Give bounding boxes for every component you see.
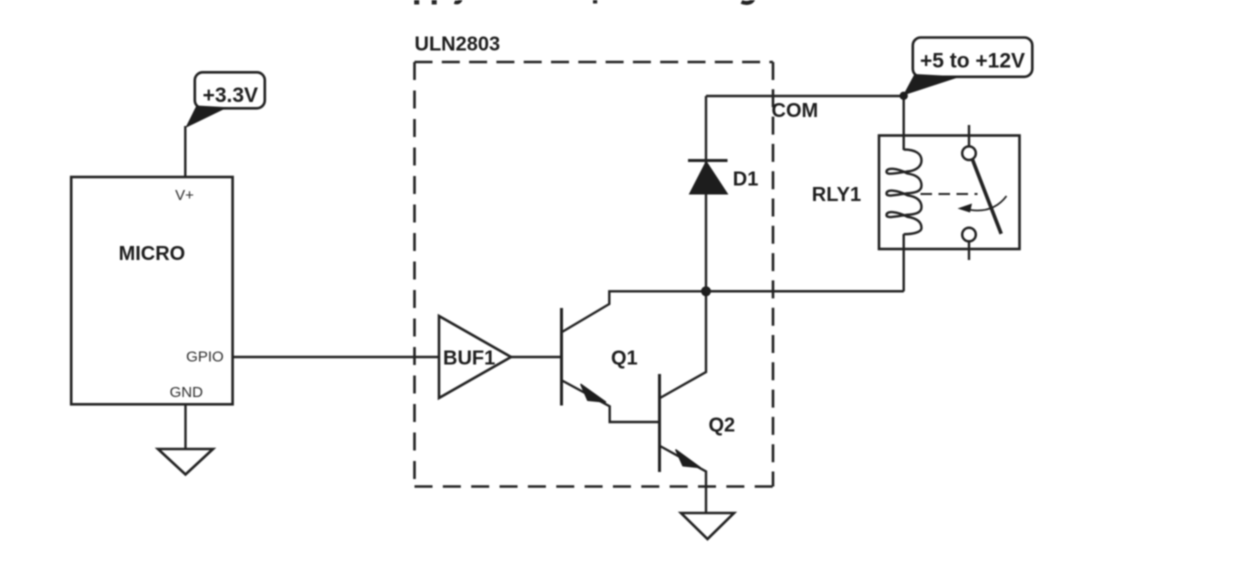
svg-text:COM: COM bbox=[772, 100, 819, 122]
svg-text:BUF1: BUF1 bbox=[443, 347, 495, 369]
svg-text:Q1: Q1 bbox=[611, 347, 638, 369]
svg-text:RLY1: RLY1 bbox=[812, 184, 861, 206]
svg-text:Q2: Q2 bbox=[709, 414, 736, 436]
svg-text:ULN2803: ULN2803 bbox=[415, 34, 501, 56]
svg-text:MICRO: MICRO bbox=[119, 243, 186, 265]
svg-text:D1: D1 bbox=[733, 168, 759, 190]
svg-text:GND: GND bbox=[170, 384, 204, 401]
svg-text:+5 to +12V: +5 to +12V bbox=[920, 49, 1025, 72]
svg-text:+3.3V: +3.3V bbox=[203, 84, 258, 107]
svg-text:GPIO: GPIO bbox=[186, 349, 224, 366]
svg-text:V+: V+ bbox=[175, 187, 194, 204]
